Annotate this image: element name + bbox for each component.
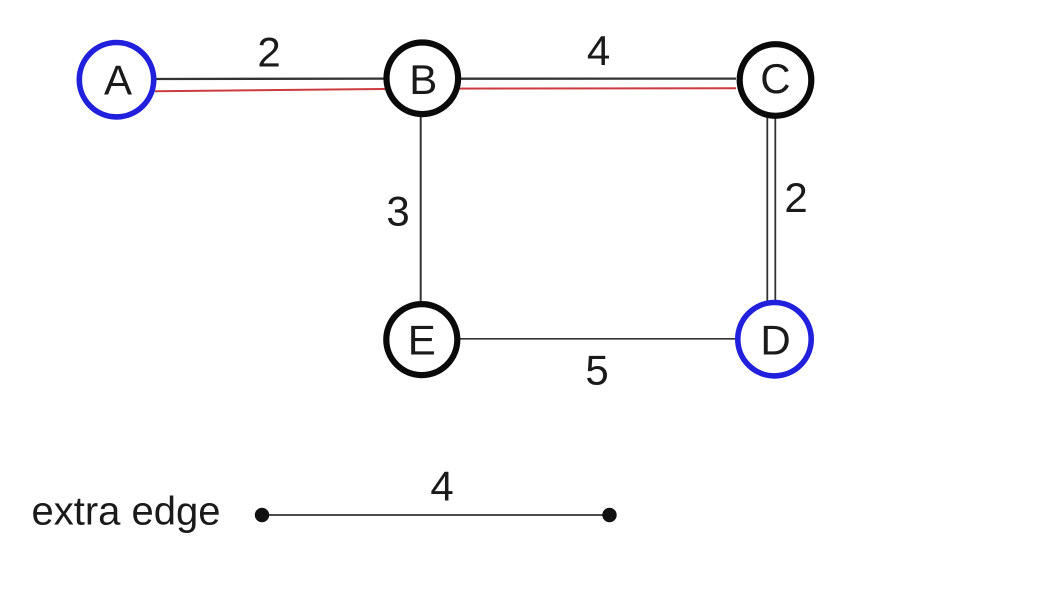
extra edge right endpoint dot <box>602 508 616 522</box>
node A <box>79 42 153 116</box>
extra edge line <box>262 514 610 516</box>
edge B-E <box>420 115 422 303</box>
node E <box>386 304 457 375</box>
extra edge left endpoint dot <box>255 508 269 522</box>
svg-text:4: 4 <box>587 27 610 74</box>
edge E-D <box>459 338 737 340</box>
node C <box>740 44 812 116</box>
red path A-B-C <box>155 88 736 91</box>
svg-text:B: B <box>409 56 437 103</box>
svg-text:D: D <box>760 316 790 363</box>
svg-text:4: 4 <box>430 463 453 510</box>
svg-text:5: 5 <box>585 346 608 393</box>
node D <box>738 303 811 376</box>
svg-text:3: 3 <box>386 188 409 235</box>
edge A-B <box>154 77 386 80</box>
svg-text:2: 2 <box>257 28 280 75</box>
edge C-D double line <box>766 117 768 303</box>
node B <box>387 43 459 115</box>
svg-text:2: 2 <box>784 174 807 221</box>
svg-text:extra edge: extra edge <box>32 490 221 534</box>
svg-text:A: A <box>104 57 132 104</box>
edge B-C <box>459 77 736 79</box>
svg-text:E: E <box>408 316 436 363</box>
svg-text:C: C <box>760 55 790 102</box>
